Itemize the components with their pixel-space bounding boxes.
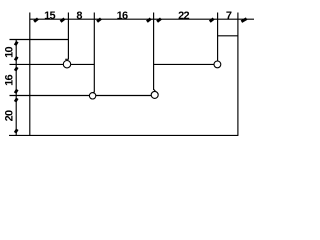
relief circle C1 [63, 60, 70, 67]
jog at C1 [65, 58, 68, 60]
extension line x=94 (8/16 boundary) down to relief circle C2 [93, 13, 95, 93]
tick: dim 16 top [15, 67, 17, 71]
extension line x=68 (15/8 boundary) down to relief circle C1 [67, 13, 69, 60]
tick: dim 10 top [15, 42, 17, 46]
extension + valley floor edge y=95.5 [10, 95, 153, 97]
extension line + part left edge x=30 [29, 13, 31, 136]
extension line + part right edge x=238 [237, 13, 239, 136]
extension + part bottom edge y=135 [9, 134, 238, 136]
svg-text:7: 7 [226, 10, 232, 22]
svg-text:8: 8 [76, 10, 82, 22]
jog at C2 [93, 92, 95, 93]
svg-text:16: 16 [117, 10, 128, 22]
tick: dim 15 left [34, 19, 38, 22]
svg-text:15: 15 [44, 10, 55, 22]
top-right tier edge y=36 [218, 35, 238, 37]
extension line x=154 (16/22 boundary) down to relief circle C3 [153, 13, 155, 91]
tick: dim 16 right [147, 19, 151, 22]
tick: dim 22 right / dim 7 left [210, 19, 214, 22]
svg-text:16: 16 [4, 75, 16, 86]
extension + top-left tier edge y=39 [10, 39, 69, 41]
left dimension line [15, 39, 17, 136]
tick: dim 15 right / dim 8 left [61, 19, 65, 22]
tick: dim 16 bottom [15, 90, 17, 94]
tick: dim 10 bottom [15, 57, 17, 61]
svg-text:20: 20 [4, 110, 16, 121]
extension line x=218 (22/7 boundary) down to relief circle C4 [217, 13, 219, 61]
relief circle C4 [214, 61, 221, 68]
relief circle C3 [151, 91, 158, 98]
relief circle C2 [89, 93, 95, 99]
jog at C3 [154, 89, 156, 91]
tick: dim 8 right / dim 16 left [97, 19, 101, 22]
svg-text:10: 10 [4, 47, 16, 58]
top dimension line [30, 18, 254, 20]
tick: dim 22 left [157, 19, 161, 22]
tick: dim 20 bottom [15, 129, 17, 133]
extension + mid tier left edge y=64 [10, 63, 95, 65]
mid tier right edge y=64 [154, 63, 215, 65]
tick: dim 20 top [15, 98, 17, 102]
svg-text:22: 22 [178, 10, 189, 22]
tick: dim 7 right outside [241, 19, 246, 22]
